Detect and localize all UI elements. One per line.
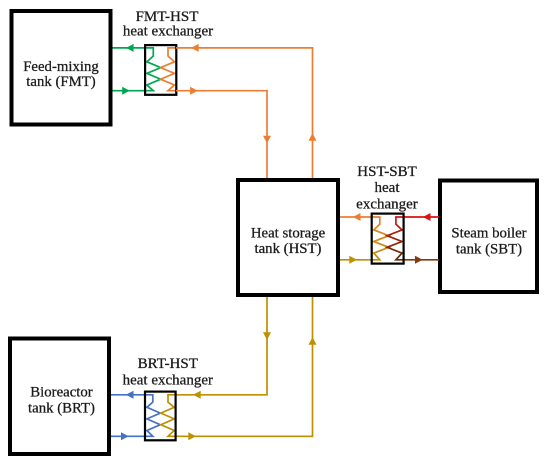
coil blue HX3 <box>144 395 160 437</box>
svg-text:exchanger: exchanger <box>356 197 418 213</box>
coil dark-yellow HX3 <box>161 395 177 437</box>
tank BRT box <box>10 339 109 455</box>
arrow dark-yellow right out of HX3 <box>188 432 196 440</box>
coil gradient left HX2 <box>371 217 389 260</box>
coil green HX1 <box>144 48 161 91</box>
svg-text:Bioreactor: Bioreactor <box>30 384 93 400</box>
heat exchanger HX3 body <box>145 392 176 441</box>
label HST-SBT heat exchanger <box>356 164 418 213</box>
arrow orange up out of HST <box>309 133 317 141</box>
tank HST label <box>251 226 326 257</box>
arrow dark-yellow right <box>349 256 357 264</box>
label BRT-HST heat exchanger <box>123 356 213 389</box>
svg-text:tank (HST): tank (HST) <box>255 241 322 257</box>
arrow red left into HX2 <box>423 213 431 221</box>
arrow blue left into BRT <box>126 391 134 399</box>
tank HST box <box>238 180 338 295</box>
wire orange HST to HX1 supply <box>176 48 313 178</box>
wire dark-yellow HX3 return to HST bottom <box>176 297 313 436</box>
svg-text:tank (SBT): tank (SBT) <box>456 242 522 258</box>
tank SBT label <box>451 226 526 258</box>
svg-text:Steam boiler: Steam boiler <box>451 226 526 242</box>
wire green FMT supply (top) <box>113 47 146 49</box>
tank FMT box <box>12 11 111 125</box>
svg-text:heat exchanger: heat exchanger <box>123 23 213 39</box>
svg-text:BRT-HST: BRT-HST <box>138 356 198 372</box>
svg-text:Feed-mixing: Feed-mixing <box>23 59 99 75</box>
wire blue BRT supply (top) <box>111 394 145 396</box>
coil orange HX1 <box>161 48 178 91</box>
wire dark-yellow HST bottom to HX3 supply <box>176 297 267 395</box>
arrow dark-yellow left into HX3 <box>193 391 201 399</box>
tank BRT label <box>28 384 95 416</box>
wire red SBT to HX2 (top) <box>403 216 439 218</box>
tank FMT label <box>23 59 99 90</box>
svg-text:heat: heat <box>375 180 401 196</box>
arrow blue right into HX3 <box>121 432 129 440</box>
svg-text:tank (BRT): tank (BRT) <box>28 400 95 416</box>
arrow dark-yellow down out of HST <box>263 332 271 340</box>
svg-text:HST-SBT: HST-SBT <box>357 164 416 180</box>
arrow dark-yellow up into HST <box>309 337 317 345</box>
arrow green left <box>126 44 134 52</box>
arrow maroon right into SBT <box>415 256 423 264</box>
wire green FMT return (bottom) <box>113 90 146 92</box>
label FMT-HST heat exchanger <box>123 9 213 39</box>
arrow green right <box>122 87 130 95</box>
arrow orange down into HST <box>263 136 271 144</box>
wire blue BRT return (bottom) <box>111 435 145 437</box>
heat exchanger HX2 body <box>372 214 404 264</box>
wire orange HX2 to HST (top) <box>340 216 373 218</box>
wire maroon HX2 to SBT (bottom) <box>403 259 439 261</box>
arrow orange right out of HX1 <box>190 87 198 95</box>
svg-text:heat exchanger: heat exchanger <box>123 373 213 389</box>
svg-text:tank (FMT): tank (FMT) <box>26 74 96 90</box>
arrow orange left into HST <box>353 213 361 221</box>
arrow orange left into HX1 <box>191 44 199 52</box>
wire orange HX1 return to HST <box>176 91 267 178</box>
wire dark-yellow HST to HX2 (bottom) <box>340 259 373 261</box>
coil gradient right HX2 <box>387 217 405 260</box>
tank SBT box <box>440 181 537 293</box>
heat exchanger HX1 body <box>145 45 176 95</box>
svg-text:Heat storage: Heat storage <box>251 226 326 242</box>
